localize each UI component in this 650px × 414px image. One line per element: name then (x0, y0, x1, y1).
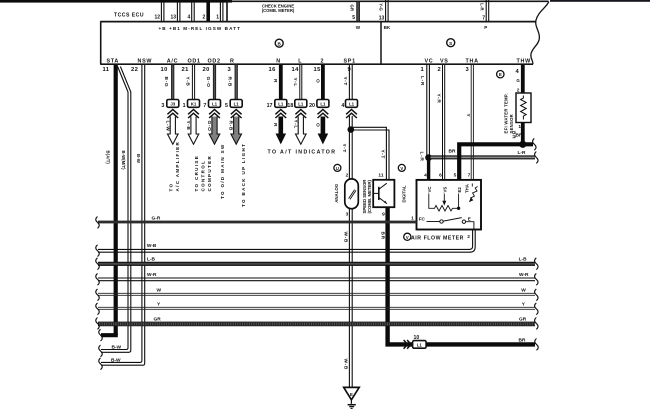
svg-text:W-B: W-B (343, 359, 349, 370)
svg-text:GR: GR (519, 317, 527, 323)
svg-text:N: N (276, 58, 281, 64)
svg-text:VC: VC (425, 58, 434, 64)
svg-text:1: 1 (411, 215, 414, 221)
svg-text:3: 3 (466, 67, 470, 73)
svg-text:L: L (298, 58, 302, 64)
left break L-B (96, 258, 100, 270)
svg-text:R-B: R-B (227, 77, 233, 87)
STA wire bottom bend to left break (101, 333, 118, 337)
top border bar of cut-off component above (right) (550, 0, 650, 2)
svg-text:Y-T: Y-T (380, 150, 386, 159)
svg-text:Y-T: Y-T (341, 144, 347, 153)
connector L1 pin 18 (287, 100, 306, 109)
svg-text:B-W: B-W (136, 154, 141, 164)
svg-text:4: 4 (341, 103, 344, 109)
svg-text:L1: L1 (278, 102, 284, 107)
svg-text:17: 17 (267, 103, 273, 109)
svg-text:U: U (336, 166, 339, 171)
svg-text:2: 2 (438, 67, 442, 73)
top border bar of cut-off component above (left) (0, 0, 232, 3)
svg-text:L1: L1 (212, 102, 218, 107)
svg-text:BR: BR (516, 132, 523, 138)
svg-text:(COMB. METER): (COMB. METER) (262, 8, 295, 13)
svg-text:12: 12 (154, 15, 160, 21)
svg-text:K1: K1 (191, 102, 197, 107)
chevron N (275, 110, 286, 119)
svg-text:B-G: B-G (163, 77, 169, 88)
SP1 wire continues to junction (349, 116, 352, 130)
svg-text:S: S (449, 41, 452, 46)
OD2 wire G-O hatched (213, 65, 216, 100)
circled U (334, 164, 341, 171)
connector L1 pin 17 (267, 100, 287, 109)
combination meter box (cut off at top, torn right edge) (227, 1, 549, 21)
svg-text:O: O (314, 79, 320, 83)
chevron R (231, 110, 242, 119)
svg-text:L-R: L-R (419, 152, 425, 162)
svg-text:5: 5 (454, 173, 457, 179)
R wire R-B hatched (235, 65, 238, 100)
svg-text:18: 18 (287, 103, 293, 109)
svg-text:DIGITAL: DIGITAL (401, 185, 406, 203)
svg-text:GR: GR (350, 5, 355, 12)
svg-text:BR: BR (519, 337, 526, 343)
svg-text:STA: STA (107, 58, 119, 64)
fuel pump switch inside AFM (427, 218, 474, 230)
svg-text:EFI WATER TEMP.: EFI WATER TEMP. (504, 93, 509, 133)
left break B thick wire (99, 329, 103, 341)
svg-text:R-B: R-B (228, 121, 234, 131)
W bus (98, 293, 535, 295)
svg-text:E: E (350, 392, 353, 397)
svg-text:TCCS ECU: TCCS ECU (114, 13, 144, 19)
wire E down from AFM to W-B bus (470, 230, 476, 253)
svg-text:2: 2 (467, 234, 470, 240)
svg-text:TO O/D MAIN SW: TO O/D MAIN SW (220, 143, 225, 199)
svg-text:L-R: L-R (518, 150, 527, 156)
svg-text:A/C: A/C (167, 58, 178, 64)
slash inside analog sensor (349, 190, 356, 200)
svg-text:B-W: B-W (112, 345, 122, 351)
svg-text:GR: GR (154, 317, 162, 323)
svg-text:2: 2 (203, 15, 206, 21)
svg-text:BR: BR (449, 148, 456, 154)
svg-text:TO A/T INDICATOR: TO A/T INDICATOR (268, 150, 337, 156)
svg-text:R: R (230, 58, 235, 64)
svg-text:1: 1 (216, 15, 219, 21)
svg-text:FC: FC (419, 216, 426, 221)
transistor inside digital box (373, 183, 387, 203)
svg-text:B-W: B-W (111, 357, 121, 363)
svg-text:W: W (356, 25, 361, 30)
hollow arrow to A/C amplifier, wire L-W (168, 117, 179, 145)
left break W (96, 289, 100, 301)
speed sensor digital box (373, 180, 394, 207)
svg-text:7: 7 (468, 173, 471, 179)
svg-text:L-B: L-B (519, 256, 528, 262)
svg-text:22: 22 (131, 67, 138, 73)
svg-text:G-O: G-O (206, 121, 212, 132)
svg-text:J3: J3 (170, 102, 175, 107)
wire junction to analog sensor (349, 130, 352, 179)
svg-text:E: E (499, 72, 502, 77)
svg-text:1: 1 (183, 103, 186, 109)
EFI water temp sensor box (516, 93, 531, 123)
wire into ECU pin 12 (161, 2, 164, 22)
svg-text:3: 3 (161, 103, 164, 109)
svg-text:E2: E2 (457, 187, 462, 193)
A/C wire B-G (171, 65, 174, 100)
svg-text:2: 2 (346, 173, 349, 179)
right break Y (535, 303, 539, 315)
svg-text:V: V (400, 166, 403, 171)
left break B-W wire1 (99, 345, 103, 357)
svg-text:L-B: L-B (147, 256, 156, 262)
svg-text:16: 16 (269, 67, 277, 73)
wire L-R pin 7 from comb meter (486, 0, 489, 22)
svg-text:Y-R: Y-R (435, 94, 441, 104)
TCCS ECU box (100, 22, 536, 65)
W-B bus (98, 249, 471, 252)
G-R bus to AFM FC (98, 221, 417, 224)
air flow meter box (417, 180, 482, 230)
svg-text:15: 15 (314, 67, 322, 73)
solid arrow to A/T indicator, wire O (321, 117, 326, 136)
junction node VC / L-R bus (425, 154, 432, 161)
svg-text:L1: L1 (320, 102, 326, 107)
solid arrow to A/T indicator, wire R (278, 117, 283, 136)
right break BR bus (533, 138, 537, 150)
chevron OD1 (188, 110, 199, 119)
svg-text:R: R (272, 79, 278, 83)
left break Y (96, 303, 100, 315)
svg-text:BK: BK (384, 25, 391, 30)
wire GR pin 5 from comb meter (hatched) (357, 2, 360, 22)
svg-text:11: 11 (103, 67, 110, 73)
wire into ECU pin 4 (192, 2, 195, 22)
thick wire BR from digital sensor down and right (388, 207, 535, 344)
svg-text:G-R: G-R (152, 216, 161, 222)
BR thick bus to E2 (459, 144, 533, 180)
svg-text:20: 20 (309, 103, 315, 109)
svg-text:OD1: OD1 (188, 58, 201, 64)
wire junction to digital sensor (right branch) (352, 127, 389, 180)
circled S (ECU section) (447, 39, 455, 47)
circled V (digital) (398, 164, 405, 171)
right break W-R (535, 273, 539, 285)
wire BR below water temp sensor (521, 123, 525, 145)
wire into ECU pin 1 (220, 2, 223, 22)
wire into ECU pin 13 (177, 2, 180, 22)
right break BR wire (535, 339, 539, 351)
wire W-B from analog sensor to ground (349, 209, 352, 388)
svg-text:13: 13 (379, 15, 385, 21)
hollow arrow to cruise computer, wire Y-B (188, 117, 199, 145)
speed sensor analog (stadium shape) (345, 179, 359, 209)
connector L1 pin 5 (225, 100, 242, 109)
connector L1 pin 20 (309, 100, 329, 109)
L-B bus (98, 262, 535, 266)
svg-text:L-R: L-R (480, 3, 485, 11)
THW wire G thick from ECU pin 4 (521, 65, 525, 93)
svg-text:2: 2 (321, 58, 325, 64)
svg-text:3: 3 (346, 212, 349, 218)
svg-text:W-B: W-B (147, 243, 157, 249)
svg-text:(COMB. METER): (COMB. METER) (367, 180, 372, 214)
svg-text:E: E (468, 217, 471, 222)
svg-text:Y-B: Y-B (185, 121, 191, 131)
svg-text:11: 11 (378, 173, 383, 179)
svg-text:L1: L1 (298, 102, 304, 107)
svg-text:VS: VS (443, 187, 448, 193)
svg-text:L1: L1 (234, 102, 240, 107)
svg-text:Y: Y (465, 114, 471, 118)
chevron SP1 (346, 110, 357, 119)
svg-text:W-B: W-B (342, 232, 348, 243)
svg-text:21: 21 (182, 67, 190, 73)
connector K1 pin 1 (183, 100, 200, 109)
svg-text:Y-L: Y-L (293, 120, 299, 129)
svg-text:SP1: SP1 (344, 58, 356, 64)
connector L1 pin 7 (203, 100, 220, 109)
svg-text:V: V (406, 235, 409, 240)
left break B-W wire2 (99, 358, 103, 370)
circled V (air flow meter) (404, 233, 411, 240)
wire into ECU pin 2 (thick) (206, 2, 210, 22)
svg-text:14: 14 (292, 67, 300, 73)
svg-text:THA: THA (466, 58, 479, 64)
ground symbol E (344, 387, 360, 408)
THA wire Y from ECU pin 3 (471, 65, 473, 180)
svg-text:Y-G: Y-G (379, 3, 384, 11)
VS wire Y-R from ECU pin 2 (443, 65, 445, 180)
svg-text:5: 5 (225, 103, 228, 109)
svg-text:VS: VS (440, 58, 449, 64)
junction node E2 (457, 207, 460, 210)
svg-text:BR: BR (380, 232, 386, 240)
svg-text:5: 5 (352, 15, 355, 21)
svg-text:B-W(M/T): B-W(M/T) (121, 151, 126, 171)
svg-text:ANALOG: ANALOG (334, 183, 339, 203)
N wire R thick (279, 65, 283, 100)
connector L1 pin 10 on BR wire (413, 335, 427, 348)
resistor zigzag water temp sensor (521, 96, 527, 120)
svg-text:1: 1 (518, 124, 521, 130)
W-R bus (98, 278, 535, 281)
svg-text:W-R: W-R (147, 272, 157, 278)
svg-text:AIR FLOW METER: AIR FLOW METER (411, 235, 464, 241)
svg-text:B(A/T): B(A/T) (106, 151, 111, 165)
svg-text:Y-T: Y-T (342, 77, 348, 86)
THA thermistor symbol (470, 184, 477, 199)
VC wire L-R from ECU pin 1 (427, 65, 430, 158)
circled E (sensor ground ref) (497, 71, 504, 78)
svg-text:TO: TO (169, 183, 174, 192)
chevron L (295, 110, 306, 119)
svg-text:L1: L1 (417, 343, 423, 348)
chevron 2 (318, 110, 329, 119)
svg-text:G-O: G-O (205, 77, 211, 88)
svg-text:OD2: OD2 (208, 58, 221, 64)
wiper arrow VS (442, 201, 446, 206)
right chevron on BR wire (404, 340, 412, 349)
svg-text:P: P (484, 25, 487, 30)
svg-text:W: W (157, 288, 162, 294)
connector L1 pin 4 (341, 100, 357, 109)
svg-text:W-R: W-R (519, 272, 529, 278)
svg-text:+B +B1 M-REL IGSW BATT: +B +B1 M-REL IGSW BATT (159, 26, 241, 31)
hatched arrow to O/D main switch, wire G-O (209, 117, 220, 145)
svg-text:Y-L: Y-L (292, 78, 298, 87)
junction node speed sensor split (348, 126, 355, 133)
hollow arrow to A/T indicator, wire Y-L (296, 117, 307, 145)
right break L-R bus (535, 152, 539, 164)
left break GR (96, 318, 100, 330)
svg-text:O: O (314, 123, 320, 127)
svg-text:VC: VC (427, 187, 432, 193)
svg-text:CONTROL: CONTROL (201, 160, 206, 192)
ECU pin number row (103, 67, 520, 75)
svg-text:TO CRUISE: TO CRUISE (194, 155, 199, 192)
right break L-B (535, 258, 539, 270)
svg-text:10: 10 (161, 67, 168, 73)
left break W-R (96, 273, 100, 285)
hatched arrow to back up light, wire R-B (231, 117, 242, 145)
wire Y-G pin 13 from comb meter (386, 0, 389, 22)
STA wire B-W(M/T) double, diagonal then down (101, 67, 131, 353)
chevron A/C (167, 110, 178, 119)
junction node BR bus / temp sensor (519, 141, 526, 148)
svg-text:3: 3 (228, 67, 232, 73)
svg-text:THW: THW (517, 58, 532, 64)
2 wire O thick (321, 65, 325, 100)
circled B (ECU section) (275, 39, 283, 47)
ECU pin name row (107, 58, 532, 64)
left break G-R (96, 217, 100, 229)
svg-text:7: 7 (203, 103, 206, 109)
potentiometer inside AFM (429, 194, 459, 212)
svg-text:A/C AMPLIFIER: A/C AMPLIFIER (175, 141, 180, 192)
L wire Y-L (300, 65, 302, 100)
svg-text:4: 4 (188, 15, 191, 21)
OD1 wire Y-B (192, 65, 194, 100)
right break GR (535, 318, 539, 330)
svg-text:TO BACK UP LIGHT: TO BACK UP LIGHT (241, 143, 246, 207)
svg-text:6: 6 (439, 173, 442, 179)
GR bus (hatched) (98, 322, 535, 326)
svg-text:9: 9 (382, 212, 385, 218)
right break W (535, 289, 539, 301)
Y bus (98, 307, 535, 309)
svg-text:L-R: L-R (419, 76, 425, 86)
svg-text:4: 4 (516, 69, 520, 75)
svg-text:1: 1 (421, 67, 425, 73)
svg-text:R: R (272, 123, 278, 127)
torn right edge of ECU / comb meter (531, 2, 549, 65)
VC wire thick to air flow meter pin 4 (427, 158, 430, 180)
STA wire B(A/T) thick (114, 65, 118, 335)
chevron OD2 (209, 110, 220, 119)
svg-text:L1: L1 (349, 102, 355, 107)
svg-text:20: 20 (203, 67, 210, 73)
svg-text:13: 13 (170, 15, 176, 21)
svg-text:L-W: L-W (164, 121, 170, 132)
svg-text:W: W (521, 288, 526, 294)
svg-text:4: 4 (424, 173, 427, 179)
svg-text:7: 7 (482, 15, 485, 21)
connector J3 pin 3 (161, 100, 178, 109)
SP1 wire Y-T (349, 65, 352, 100)
svg-text:NSW: NSW (138, 58, 153, 64)
svg-text:THA: THA (464, 184, 469, 193)
svg-text:G: G (516, 78, 520, 83)
left break W-B (96, 245, 100, 257)
svg-text:COMPUTER: COMPUTER (207, 155, 212, 192)
air flow meter pin numbers 4 6 5 7 (424, 173, 471, 179)
NSW wire B-W double (101, 65, 145, 365)
svg-text:Y-B: Y-B (184, 77, 190, 87)
L-R bus to right break (431, 156, 536, 159)
